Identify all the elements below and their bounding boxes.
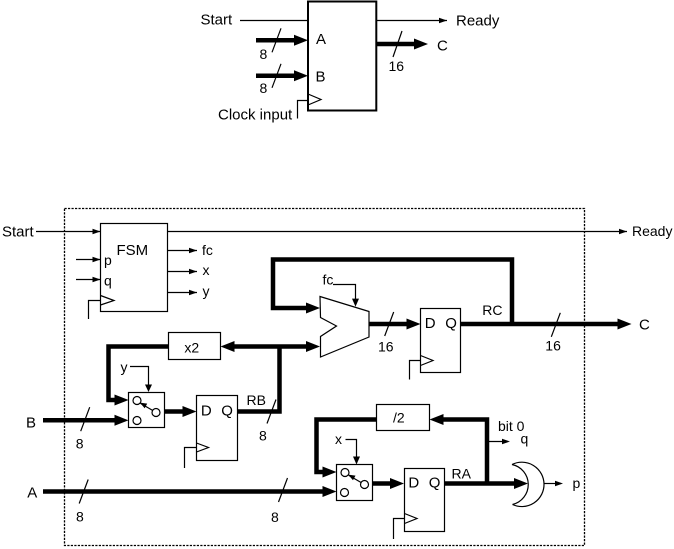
wire Start into FSM (36, 231, 100, 233)
arrowhead C output (618, 319, 632, 330)
wire Start to U0 (240, 20, 308, 22)
slash bus B (272, 64, 281, 88)
arrowhead S2 lever (348, 475, 355, 481)
svg-text:D: D (201, 402, 212, 419)
wire Ready from FSM (168, 231, 628, 233)
bus ALU output to RC (369, 322, 407, 327)
svg-text:Q: Q (445, 315, 457, 332)
arrowhead into RB (183, 406, 197, 417)
wire p input to FSM (76, 259, 100, 261)
block U1 FSM (101, 224, 168, 312)
OR gate zero-detect G1 (512, 465, 528, 505)
svg-text:q: q (104, 273, 112, 289)
bus RA output to OR gate (445, 481, 516, 486)
svg-text:D: D (408, 474, 419, 491)
svg-text:Ready: Ready (456, 13, 500, 30)
svg-text:Start: Start (2, 223, 35, 240)
svg-text:C: C (437, 38, 448, 55)
arrowhead fc control (352, 299, 359, 307)
arrowhead x (189, 269, 197, 274)
svg-text:8: 8 (76, 436, 84, 452)
svg-text:q: q (521, 431, 529, 447)
bus S2 to RA (373, 481, 393, 486)
svg-text:Ready: Ready (632, 223, 672, 239)
arrowhead Ready (bottom) (619, 229, 627, 234)
svg-text:16: 16 (545, 338, 561, 354)
node S1 input circle (B) (133, 417, 141, 425)
svg-text:8: 8 (76, 508, 84, 524)
svg-text:RC: RC (482, 302, 502, 318)
arrowhead A into S2 (323, 486, 337, 497)
wire Clock input stub (298, 101, 309, 119)
block /2 shifter (377, 405, 430, 431)
arrowhead x control (353, 457, 360, 465)
svg-text:8: 8 (259, 428, 267, 444)
clock triangle U0 (308, 94, 321, 105)
ALU adder U2 (320, 297, 369, 358)
clock triangle RB (197, 443, 209, 452)
slash C output (551, 313, 560, 337)
svg-text:Q: Q (221, 402, 233, 419)
slash A bus (left) (79, 480, 88, 504)
svg-text:B: B (26, 414, 36, 431)
arrowhead into ALU (operand B) (306, 341, 320, 352)
arrowhead /2 loop into S2 (323, 467, 337, 478)
svg-text:FSM: FSM (117, 242, 149, 259)
arrowhead RC feedback into ALU (306, 303, 320, 314)
bus RC output to C (461, 322, 620, 327)
svg-text:/2: /2 (393, 410, 405, 426)
svg-text:y: y (121, 359, 128, 375)
wire p output of OR gate (544, 483, 558, 485)
register RC flip-flop (421, 309, 461, 373)
wire y output of FSM (168, 292, 198, 294)
register RB flip-flop (197, 396, 238, 461)
svg-text:Start: Start (201, 12, 234, 29)
wire y control into S1 (130, 367, 149, 386)
node S1 input circle (x2) (133, 397, 141, 405)
arrowhead p (93, 257, 101, 262)
arrowhead into RA (390, 478, 404, 489)
svg-text:RB: RB (247, 392, 266, 408)
wire x control into S2 (346, 440, 357, 458)
bus B input (8) (256, 74, 295, 79)
svg-text:fc: fc (202, 242, 213, 258)
arrowhead p output (555, 481, 563, 486)
svg-text:Clock input: Clock input (218, 106, 293, 123)
svg-text:x: x (335, 431, 342, 447)
node S2 input circle (/2) (341, 469, 349, 477)
arrowhead bus B (294, 70, 308, 81)
svg-text:p: p (104, 252, 112, 268)
wire RC clock stub (410, 361, 421, 380)
arrowhead S1 lever (140, 403, 147, 409)
svg-text:16: 16 (378, 339, 394, 355)
svg-text:x: x (203, 262, 210, 278)
clock triangle RC (421, 356, 434, 366)
svg-text:Q: Q (429, 474, 441, 491)
bus RC feedback loop (273, 260, 512, 326)
wire fc control into ALU (333, 285, 356, 300)
wire FSM clock stub (89, 301, 101, 320)
clock triangle FSM (101, 296, 115, 306)
switch S1 box (129, 393, 165, 428)
bus A input to S2 (43, 489, 325, 494)
slash RB output (267, 400, 276, 424)
svg-text:B: B (316, 68, 326, 85)
wire bit 0 tap to q (487, 441, 505, 443)
arrowhead y control (145, 385, 152, 393)
bus A input (8) (256, 38, 295, 43)
arrowhead x2 loop into S1 (115, 395, 129, 406)
slash ALU output (385, 312, 394, 336)
arrowhead bus A (294, 35, 308, 46)
bus RA loop into /2 (444, 420, 488, 484)
svg-text:A: A (316, 31, 326, 48)
arrowhead q tap (502, 439, 510, 444)
wire RB clock stub (185, 448, 197, 469)
block U0 multiplier top-level box (308, 2, 376, 111)
svg-text:D: D (425, 315, 436, 332)
arrowhead fc (189, 248, 197, 253)
clock triangle RA (405, 514, 418, 524)
arrowhead into x2 (221, 341, 235, 352)
arrowhead q (93, 277, 101, 282)
arrowhead into OR gate (514, 478, 528, 489)
wire q input to FSM (76, 279, 100, 281)
slash bus C (393, 31, 402, 57)
svg-text:y: y (203, 283, 210, 299)
wire S1 lever (141, 403, 154, 410)
bus C output (16) (376, 42, 415, 47)
arrowhead ALU output into RC (407, 319, 421, 330)
switch S2 box (337, 465, 373, 501)
node S1 output circle (152, 409, 160, 417)
wire RA clock stub (394, 519, 405, 540)
bus S1 to RB (165, 409, 186, 414)
arrowhead into /2 (430, 414, 444, 425)
svg-text:C: C (639, 316, 650, 333)
svg-text:p: p (573, 475, 581, 491)
node S2 input circle (A) (341, 489, 349, 497)
slash bus A (272, 28, 281, 52)
svg-text:8: 8 (271, 509, 279, 525)
dashed datapath boundary box (65, 209, 585, 546)
wire fc output of FSM (168, 250, 198, 252)
arrowhead Ready (439, 18, 447, 23)
bus x2 output loop to switch S1 (109, 347, 169, 401)
svg-text:A: A (27, 484, 37, 501)
arrowhead B into S1 (115, 415, 129, 426)
block x2 shifter (169, 333, 221, 360)
svg-text:8: 8 (260, 80, 268, 96)
svg-text:8: 8 (260, 46, 268, 62)
bus B input to S1 (43, 418, 117, 423)
slash B bus (81, 407, 90, 431)
bus x2/RB to ALU (233, 344, 307, 349)
node S2 output circle (361, 481, 369, 489)
bus /2 output loop to S2 (317, 420, 377, 473)
svg-text:RA: RA (452, 465, 472, 481)
arrowhead Start into FSM (93, 229, 101, 234)
svg-text:fc: fc (323, 271, 334, 287)
svg-text:x2: x2 (184, 339, 199, 355)
arrowhead bus C (414, 39, 428, 50)
arrowhead y (189, 290, 197, 295)
slash A bus (right) (279, 478, 288, 502)
register RA flip-flop (405, 469, 445, 532)
wire S2 lever (349, 475, 362, 482)
wire x output of FSM (168, 271, 198, 273)
bus RB output up to x2 line (237, 347, 280, 412)
svg-text:16: 16 (389, 58, 405, 74)
